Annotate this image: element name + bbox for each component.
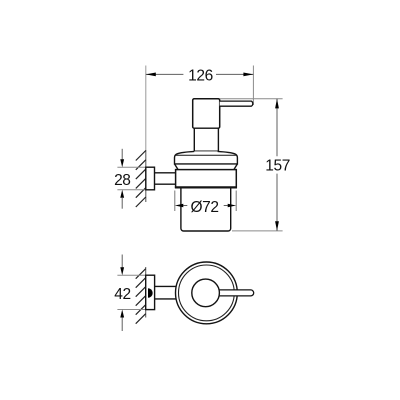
side view: wall line bbox=[145, 66, 147, 203]
bottom view: wall line bbox=[145, 267, 147, 318]
side view: lid dome bbox=[175, 151, 238, 169]
side view: holder ring band bbox=[175, 170, 237, 188]
dimension Ø72 extension lines bbox=[175, 191, 236, 212]
bottom view: inner rim circle bbox=[179, 265, 235, 321]
bottom view: wall plate bracket bbox=[146, 275, 155, 309]
side view: holder arm bbox=[155, 173, 177, 184]
bottom view: wall hatching bbox=[136, 269, 146, 324]
svg-text:Ø72: Ø72 bbox=[190, 199, 218, 216]
dimension 157 bbox=[265, 99, 290, 231]
bottom view: spout bar bbox=[219, 290, 254, 296]
side view: wall plate bracket bbox=[146, 167, 155, 190]
side view: pump head bbox=[193, 99, 220, 129]
dimension 28 extension lines bbox=[117, 167, 145, 190]
dimension 28 bbox=[114, 149, 130, 209]
svg-text:42: 42 bbox=[114, 286, 130, 303]
dimension 42 extension lines bbox=[117, 275, 145, 309]
dimension Ø72 bbox=[175, 199, 236, 216]
bottom view: pump circle bbox=[192, 279, 220, 307]
bottom view: screw bbox=[148, 288, 153, 297]
side view: glass body bbox=[181, 189, 231, 232]
svg-text:157: 157 bbox=[265, 157, 290, 174]
bottom view: outer circle bbox=[176, 262, 238, 324]
bottom view: holder arm bbox=[155, 286, 178, 299]
side view: wall hatching bbox=[136, 151, 146, 208]
side view: spout bbox=[220, 101, 253, 106]
dimension 157 extension lines bbox=[220, 99, 283, 231]
dimension 126 bbox=[146, 68, 254, 85]
svg-text:126: 126 bbox=[188, 68, 213, 85]
side view: pump neck bbox=[194, 128, 218, 151]
dimension 126 extension line right bbox=[252, 66, 254, 106]
dimension 42 bbox=[114, 255, 130, 332]
svg-text:28: 28 bbox=[114, 172, 130, 189]
